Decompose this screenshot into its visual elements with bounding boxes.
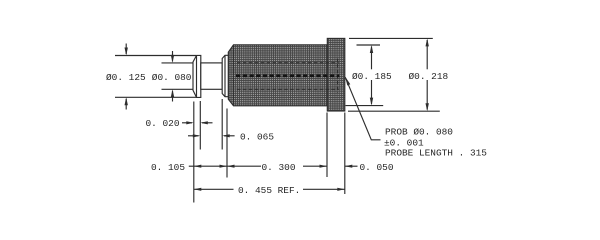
- arrowhead leader: [345, 77, 350, 86]
- dia 0.185 top extension line: [357, 44, 381, 46]
- svg-text:Ø0. 218: Ø0. 218: [409, 71, 449, 82]
- arrowhead dia0.185 top: [370, 45, 373, 53]
- extension line disk left face: [193, 102, 195, 203]
- arrowhead 0.020 right: [200, 121, 208, 124]
- svg-text:Ø0. 080: Ø0. 080: [152, 72, 192, 83]
- dia 0.080 bottom extension line: [162, 88, 194, 90]
- svg-text:0. 050: 0. 050: [360, 162, 394, 173]
- hidden probe end vertical: [337, 59, 339, 93]
- hidden probe bottom line: [237, 88, 339, 90]
- dim 0.050 right arrow line: [345, 165, 358, 167]
- dim 0.455 dim line left part: [194, 188, 234, 190]
- arrowhead dia0.125 bottom: [125, 97, 128, 105]
- svg-text:Ø0. 185: Ø0. 185: [352, 71, 392, 82]
- dia 0.218 dim line upper: [426, 40, 428, 69]
- knurled body: [228, 45, 327, 106]
- collar face line: [224, 55, 226, 96]
- dim 0.455 dim line right part: [303, 188, 345, 190]
- svg-text:0. 300: 0. 300: [262, 162, 296, 173]
- dia 0.185 dim line upper: [371, 47, 373, 70]
- collar outline: [222, 55, 228, 96]
- leader line to probe: [345, 77, 380, 140]
- dia 0.080 top extension line: [162, 62, 194, 64]
- arrowhead 0.105 right: [220, 165, 228, 168]
- dia 0.125 top arrow stem: [125, 44, 127, 55]
- dia 0.125 top extension line: [115, 55, 196, 57]
- arrowhead 0.105 left: [194, 165, 202, 168]
- svg-text:Ø0. 125: Ø0. 125: [106, 72, 146, 83]
- arrowhead 0.300 left: [227, 165, 235, 168]
- hidden probe top line: [237, 62, 339, 64]
- knurled end flange: [327, 38, 345, 111]
- body chamfer line: [233, 45, 235, 106]
- dia 0.125 bottom extension line: [115, 96, 196, 98]
- heavy center dash line: [236, 74, 340, 77]
- dia 0.185 bottom extension line: [346, 105, 384, 107]
- extension line disk right face: [199, 101, 201, 150]
- svg-text:0. 455 REF.: 0. 455 REF.: [238, 185, 300, 196]
- dim 0.105 dim line: [194, 165, 227, 167]
- dia 0.218 top extension line: [349, 37, 433, 39]
- dim 0.065 right arrow line: [224, 135, 235, 137]
- arrowhead dia0.185 bottom: [370, 98, 373, 106]
- arrowhead dia0.080 top: [171, 55, 174, 63]
- dia 0.218 dim line lower: [426, 80, 428, 110]
- dim 0.105 leader from text: [189, 165, 194, 167]
- extension line flange left face: [326, 113, 328, 178]
- arrowhead dia0.080 bottom: [171, 89, 174, 97]
- dia 0.080 top arrow stem: [172, 51, 174, 61]
- dim 0.020 left arrow line: [182, 122, 192, 124]
- left disk flange outline: [193, 55, 201, 97]
- extension line body left edge: [226, 109, 228, 178]
- arrowhead 0.455 left: [194, 188, 202, 191]
- shaft 0.080 dia: [201, 63, 222, 89]
- svg-text:0. 020: 0. 020: [146, 118, 180, 129]
- svg-text:0. 105: 0. 105: [151, 162, 185, 173]
- extension line collar left face: [221, 99, 223, 150]
- arrowhead 0.065 right: [222, 134, 230, 137]
- dia 0.080 bottom arrow stem: [172, 91, 174, 102]
- dia 0.218 bottom extension line: [348, 110, 440, 112]
- arrowhead dia0.218 top: [426, 38, 429, 46]
- arrowhead 0.020 left: [186, 121, 194, 124]
- svg-text:PROBE LENGTH . 315: PROBE LENGTH . 315: [385, 148, 487, 159]
- arrowhead 0.455 right: [337, 188, 345, 191]
- dim 0.300 dim line left part: [227, 165, 261, 167]
- dim 0.020 right arrow line: [202, 122, 213, 124]
- dia 0.125 bottom arrow stem: [125, 99, 127, 110]
- arrowhead dia0.125 top: [125, 48, 128, 56]
- dia 0.185 dim line lower: [371, 80, 373, 104]
- dim 0.065 left arrow line: [188, 135, 199, 137]
- dim 0.300 dim line right part: [303, 165, 327, 167]
- arrowhead 0.050 right: [345, 165, 353, 168]
- svg-text:0. 065: 0. 065: [240, 132, 274, 143]
- left disk face line: [196, 55, 198, 97]
- arrowhead 0.300 right: [320, 165, 328, 168]
- arrowhead 0.065 left: [193, 134, 201, 137]
- svg-text:PROB Ø0. 080: PROB Ø0. 080: [385, 126, 453, 137]
- arrowhead dia0.218 bottom: [426, 103, 429, 111]
- extension line flange right face: [344, 113, 346, 195]
